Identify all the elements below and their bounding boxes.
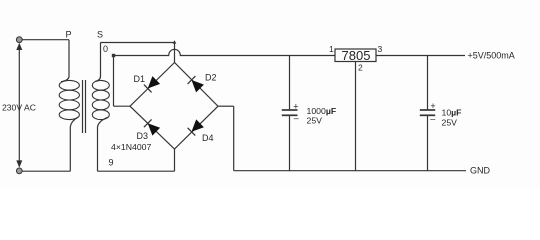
svg-text:D4: D4 [202,133,214,143]
terminal bottom-left [16,168,22,174]
transformer T1 primary coil [59,80,79,119]
diode D1 [144,76,160,92]
svg-text:10µF: 10µF [442,108,462,118]
wire secondary bottom lead [98,117,109,171]
svg-text:D1: D1 [134,74,146,84]
svg-text:P: P [66,30,72,40]
capacitor C1 1000uF plates [282,110,298,115]
wire bridge right vertex stub [218,105,234,107]
wire 7805 pin2 to GND [355,62,357,171]
wire bridge left vertex stub [114,105,131,107]
wire DC+ rail from 7805 output to +5V label [376,55,465,57]
svg-text:1: 1 [329,44,334,54]
node junction dot at DC+ corner [112,54,115,57]
svg-text:D3: D3 [137,131,149,141]
wire bridge right vertex down to GND rail [233,106,235,171]
svg-text:7805: 7805 [342,48,371,63]
svg-text:3: 3 [378,44,383,54]
svg-text:4×1N4007: 4×1N4007 [111,142,152,152]
wire 1000uF capacitor branch top [289,56,291,111]
svg-text:0: 0 [103,44,108,54]
diode D3 [144,119,160,135]
node junction at AC feed corner [173,40,177,43]
wire bottom AC: secondary bottom to bridge bottom vertex [98,170,175,172]
svg-text:+5V/500mA: +5V/500mA [468,51,515,61]
diode D2 [188,76,204,92]
wire 10uF capacitor branch bottom [427,115,429,170]
wire secondary top lead [95,43,100,82]
svg-text:D2: D2 [205,73,217,83]
wire bridge bottom vertex stub [174,149,176,171]
transformer T1 secondary coil [92,80,109,119]
svg-text:2: 2 [358,63,363,73]
svg-text:25V: 25V [442,118,458,128]
svg-text:S: S [97,30,103,40]
svg-text:9: 9 [109,158,114,168]
wire GND rail [234,170,466,172]
wire primary bottom lead [70,117,78,171]
svg-text:230V AC: 230V AC [2,103,36,113]
wire bridge left vertex riser to DC+ rail [113,56,115,107]
wire 1000uF capacitor branch bottom [289,115,291,170]
bridge diamond [130,63,218,150]
wire bottom-left from terminal to primary [19,170,70,172]
AC source V1 arrows [16,43,22,168]
wire DC+ rail with hop over AC feed [114,49,336,55]
svg-text:25V: 25V [307,116,323,126]
svg-text:1000µF: 1000µF [307,106,337,116]
terminal top-left [16,37,22,43]
wire top-left from AC terminal to primary [19,39,69,41]
capacitor C2 10uF plates [420,110,435,115]
regulator U1 7805 [335,48,376,63]
svg-text:GND: GND [470,166,491,176]
svg-text:–: – [294,113,299,123]
svg-text:–: – [430,113,435,123]
svg-text:+: + [430,101,435,111]
wire primary top lead [61,40,69,82]
wire secondary top to bridge top vertex [101,43,175,63]
wire 10uF capacitor branch top [427,56,429,111]
svg-text:+: + [293,102,298,112]
diode D4 [188,119,204,135]
transformer T1 core [83,80,86,133]
